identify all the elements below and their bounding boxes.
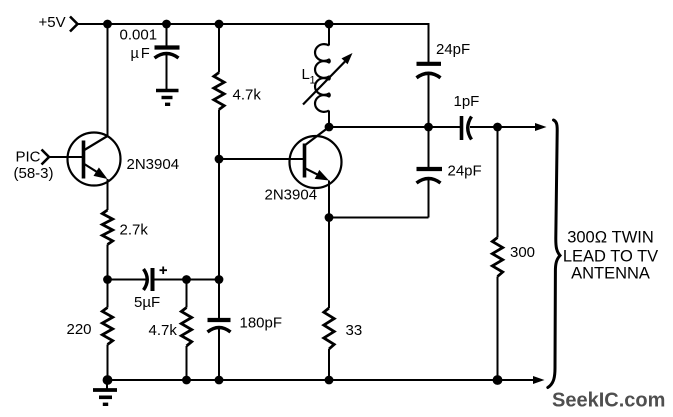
svg-text:4.7k: 4.7k (233, 87, 262, 104)
svg-text:LEAD TO TV: LEAD TO TV (563, 248, 658, 266)
svg-text:300: 300 (510, 244, 535, 261)
svg-text:2N3904: 2N3904 (265, 187, 318, 204)
svg-text:1: 1 (310, 75, 316, 87)
svg-text:µF: µF (131, 46, 152, 62)
svg-text:PIC: PIC (16, 149, 41, 166)
svg-text:2.7k: 2.7k (120, 222, 149, 239)
svg-text:1pF: 1pF (454, 93, 480, 110)
svg-text:0.001: 0.001 (120, 27, 158, 44)
svg-text:33: 33 (346, 322, 363, 339)
svg-text:ANTENNA: ANTENNA (571, 265, 650, 283)
svg-text:+5V: +5V (39, 14, 66, 31)
svg-text:5µF: 5µF (134, 294, 160, 311)
svg-text:24pF: 24pF (436, 41, 470, 58)
svg-text:300Ω TWIN: 300Ω TWIN (567, 229, 654, 247)
svg-text:(58-3): (58-3) (14, 165, 54, 182)
svg-text:220: 220 (67, 321, 92, 338)
svg-text:24pF: 24pF (448, 163, 482, 180)
svg-text:180pF: 180pF (240, 315, 283, 332)
svg-text:4.7k: 4.7k (149, 322, 178, 339)
svg-text:2N3904: 2N3904 (127, 156, 180, 173)
svg-text:SeekIC.com: SeekIC.com (552, 390, 665, 412)
